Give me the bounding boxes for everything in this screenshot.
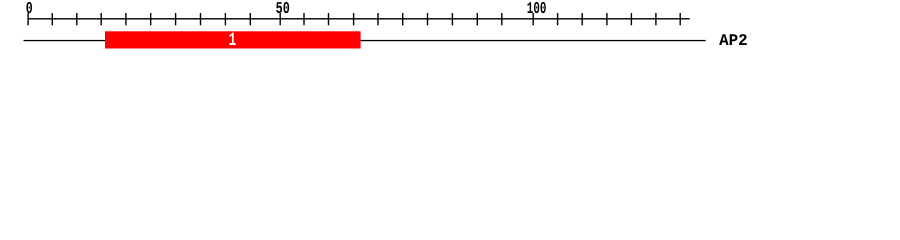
svg-text:100: 100 xyxy=(527,0,547,18)
svg-text:AP2: AP2 xyxy=(719,31,748,50)
svg-text:0: 0 xyxy=(26,0,33,18)
svg-text:1: 1 xyxy=(229,30,237,51)
svg-text:50: 50 xyxy=(276,0,290,18)
